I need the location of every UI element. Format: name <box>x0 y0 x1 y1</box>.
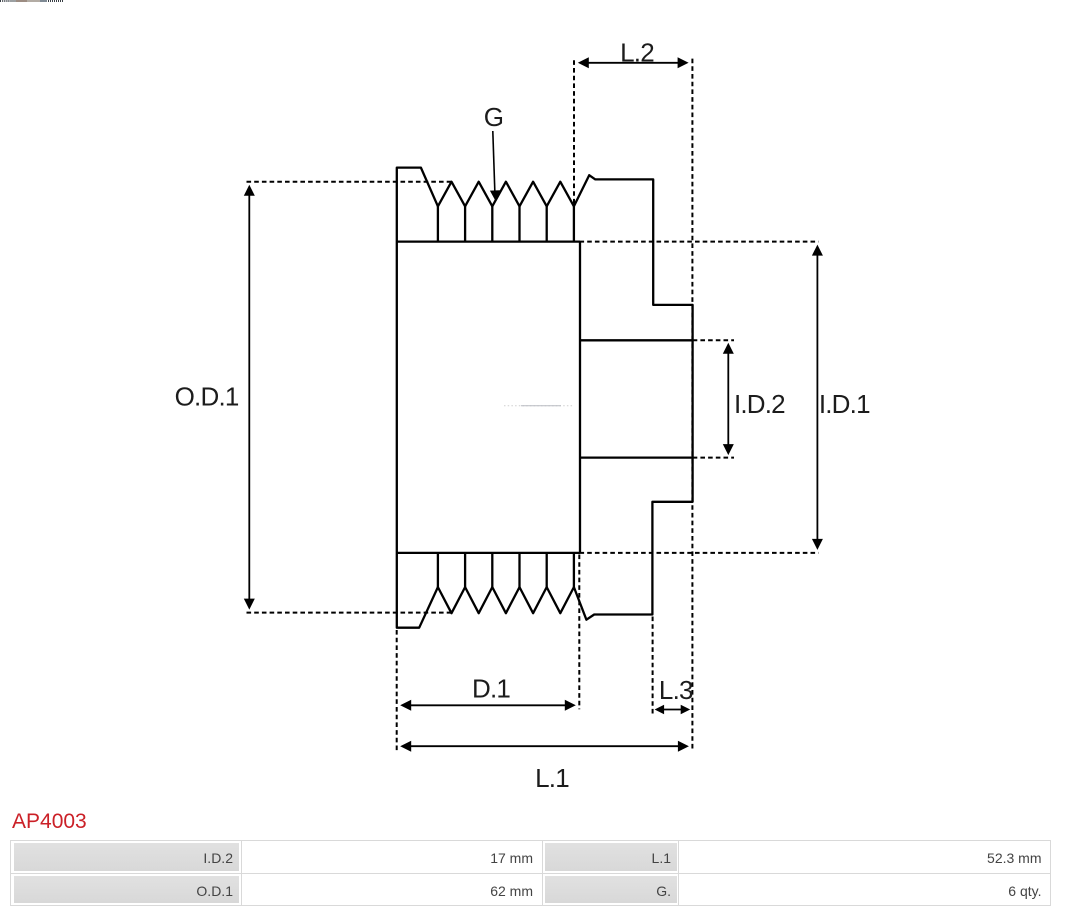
dashed extension line L.3 left <box>652 617 654 714</box>
pulley outer profile <box>397 168 693 628</box>
dimension O.D.1 arrow <box>244 185 255 610</box>
dashed extension line D.1/L.1 left <box>396 630 398 751</box>
dimension L.2 arrow <box>578 57 689 68</box>
G leader arrow <box>490 131 500 201</box>
dashed extension line I.D.2 top <box>693 339 734 341</box>
spec table <box>10 840 1051 906</box>
dimension L.1 arrow <box>400 741 689 752</box>
body top base line <box>397 240 580 242</box>
dashed extension line O.D.1 top <box>247 181 452 183</box>
svg-text:I.D.2: I.D.2 <box>734 389 785 419</box>
dimension D.1 arrow <box>400 700 576 711</box>
groove stems bottom <box>438 553 574 587</box>
dashed extension line right shared L.2/L.1 <box>691 59 693 752</box>
faint centerline watermark <box>504 405 574 407</box>
dashed extension line L.2 left <box>573 60 575 207</box>
hub top line <box>580 339 693 341</box>
svg-text:L.2: L.2 <box>620 37 654 67</box>
svg-text:D.1: D.1 <box>472 673 510 703</box>
svg-text:G: G <box>484 102 503 132</box>
svg-text:O.D.1: O.D.1 <box>175 382 239 412</box>
product code <box>12 811 87 832</box>
dashed extension line O.D.1 bottom <box>247 612 453 614</box>
dashed extension line I.D.1 top <box>580 241 819 243</box>
dimension I.D.1 arrow <box>812 245 823 550</box>
svg-text:I.D.1: I.D.1 <box>819 389 870 419</box>
svg-text:L.1: L.1 <box>535 763 569 793</box>
dashed extension line I.D.2 bottom <box>693 457 734 459</box>
dashed extension line I.D.1 bottom <box>580 552 819 554</box>
svg-text:L.3: L.3 <box>659 675 693 705</box>
body right edge <box>579 242 581 553</box>
top-left clipped watermark artifact <box>0 0 70 12</box>
dimension I.D.2 arrow <box>723 343 734 455</box>
groove stems top <box>438 206 574 241</box>
dimension L.3 arrow <box>655 705 691 715</box>
dashed extension line D.1 right <box>578 555 580 710</box>
hub bottom line <box>580 456 693 458</box>
body bottom base line <box>397 552 580 554</box>
